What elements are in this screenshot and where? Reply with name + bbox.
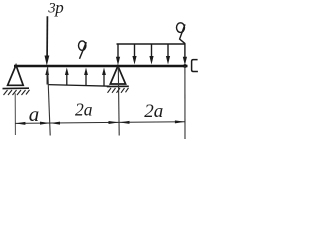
hatching at A [4,90,30,95]
distributed load q middle span (upward arrows under beam) [45,68,110,87]
hatching at B [108,88,129,93]
ground line at B [107,85,129,87]
node C junction dot [183,64,187,68]
extension line at C [184,66,186,139]
dimension arrowheads at force point [40,122,60,125]
extension line at B [117,67,120,136]
dimension arrowhead at C [175,120,185,123]
beam AC [14,65,188,68]
label q (middle span) [79,41,87,59]
pin support A (left) [8,65,24,85]
svg-text:2a: 2a [144,101,163,122]
dimension line [15,122,185,124]
svg-text:2a: 2a [75,100,93,120]
force 3P arrow [45,16,50,65]
dimension arrowheads at B [109,121,130,124]
distributed load q right span (downward arrows above beam) [116,44,187,65]
extension line at force point [48,67,51,136]
dimension arrowheads at A [15,122,25,125]
label C [192,60,198,72]
svg-text:p: p [54,0,64,17]
label q (right span) [177,23,186,44]
extension line at A [14,93,16,135]
svg-text:a: a [29,102,40,126]
ground line at A [3,87,30,89]
pin support B (middle) [110,66,125,84]
